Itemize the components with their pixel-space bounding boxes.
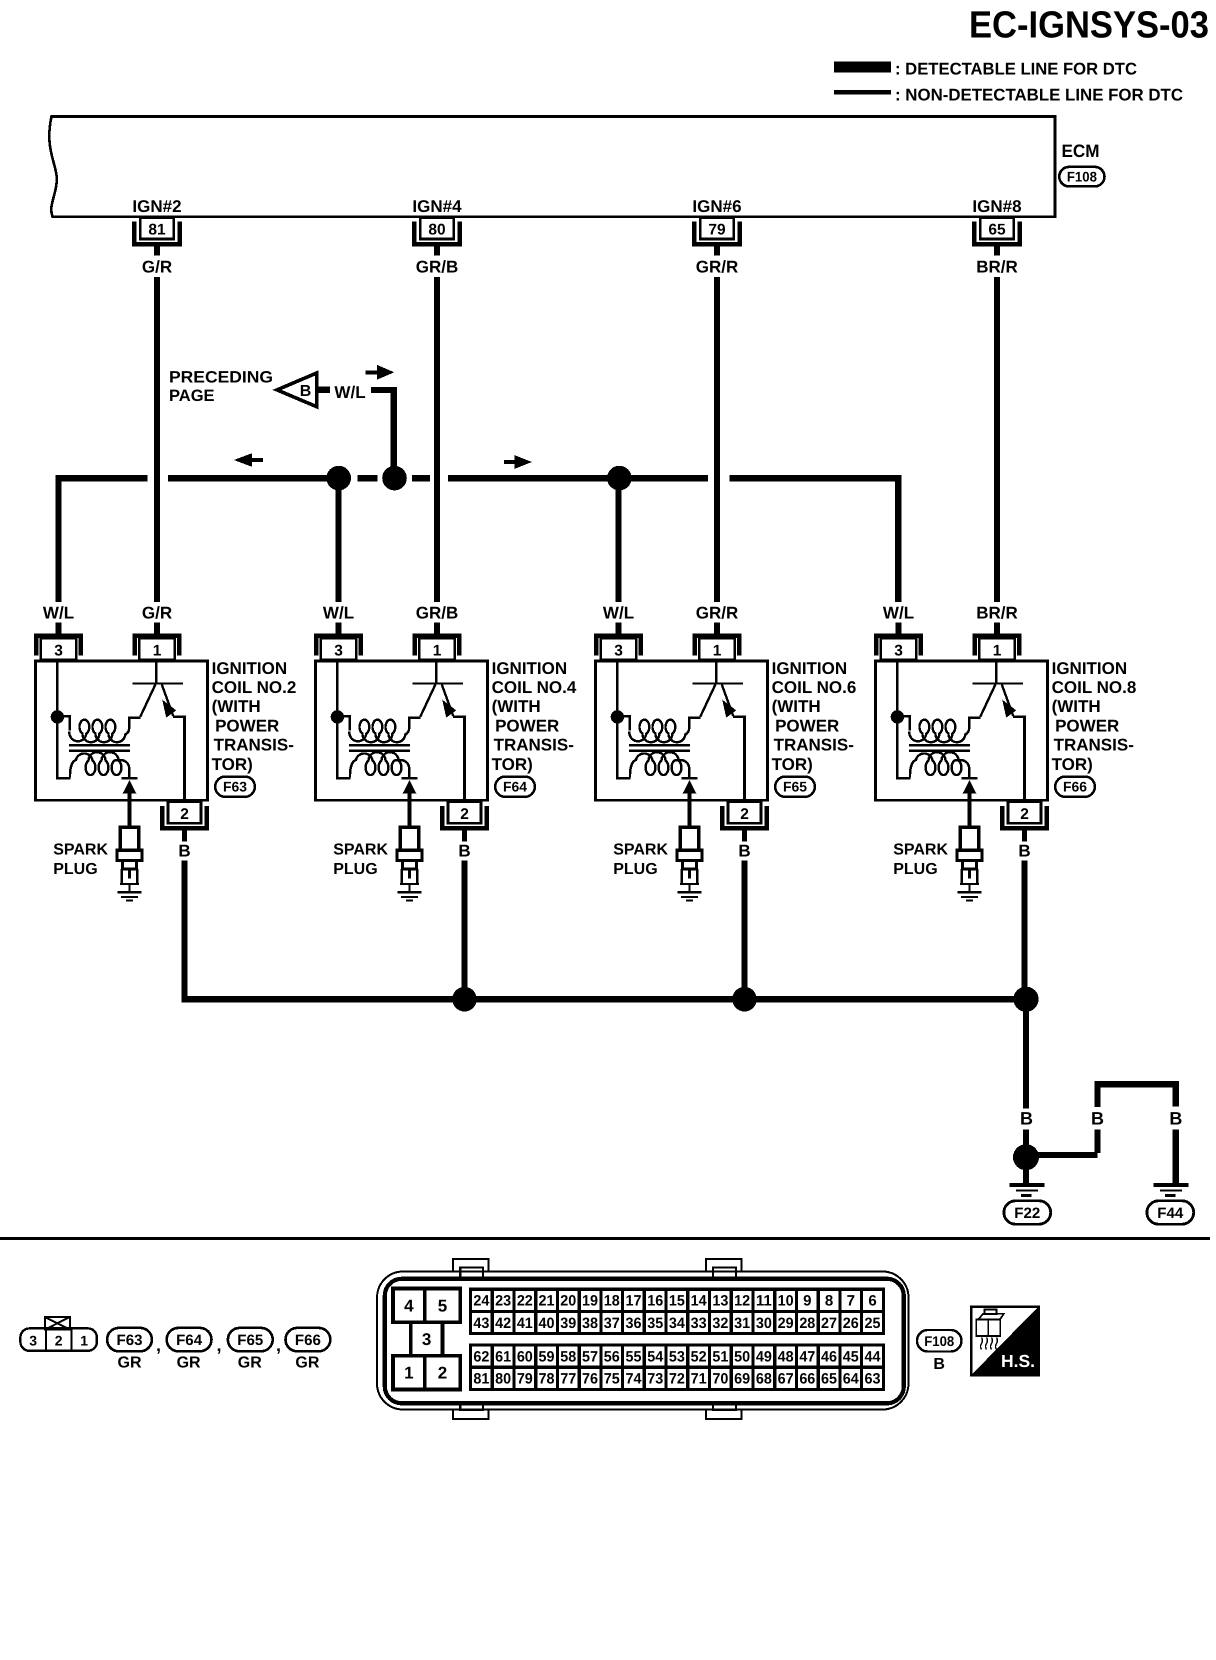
transformer T2 secondary winding: [70, 752, 129, 777]
svg-text:9: 9: [803, 1293, 811, 1310]
wire W/L feed elbow to bus: [371, 390, 394, 477]
svg-text:50: 50: [734, 1349, 750, 1366]
svg-text:GR: GR: [177, 1354, 201, 1371]
svg-text:31: 31: [734, 1315, 750, 1332]
pin cell 65: [818, 1367, 840, 1389]
svg-text:15: 15: [669, 1293, 685, 1310]
power transistor Q2 emitter with arrow: [162, 685, 173, 717]
pin cell 49: [753, 1345, 775, 1367]
svg-text:GR/R: GR/R: [696, 604, 739, 623]
wire diode to spark plug: [968, 793, 972, 828]
primary winding lead: [897, 716, 909, 730]
junction node (coil no.6 B): [732, 987, 757, 1012]
power transistor Q8 base bar: [972, 682, 1023, 684]
svg-text:F63: F63: [117, 1332, 143, 1349]
diode D4: [401, 777, 417, 780]
wire B branch right vertical: [1173, 1081, 1179, 1107]
wire B stub above ground node: [1023, 1129, 1029, 1157]
pin cell 81: [471, 1367, 493, 1389]
connector cavity 2: [425, 1356, 460, 1390]
svg-text:42: 42: [495, 1315, 511, 1332]
svg-text:GR/R: GR/R: [696, 257, 739, 276]
svg-text:48: 48: [778, 1349, 794, 1366]
connector F63 oval (bottom): [107, 1328, 152, 1351]
svg-text:,: ,: [216, 1335, 221, 1355]
pin cell 47: [796, 1345, 818, 1367]
transformer T6 primary winding: [629, 720, 685, 742]
wire stub below terminal 65: [994, 246, 1000, 256]
svg-text:11: 11: [756, 1293, 772, 1310]
pin cell 70: [710, 1367, 732, 1389]
svg-text:TRANSIS-: TRANSIS-: [1054, 736, 1134, 755]
svg-text:(WITH: (WITH: [772, 697, 821, 716]
connector F63 oval: [215, 777, 255, 797]
svg-text:IGNITION: IGNITION: [772, 659, 848, 678]
pin cell 54: [644, 1345, 666, 1367]
svg-text:POWER: POWER: [775, 716, 839, 735]
svg-text:43: 43: [473, 1315, 489, 1332]
svg-text:49: 49: [756, 1349, 772, 1366]
ground connector F44 oval: [1147, 1201, 1194, 1224]
transformer T6 core: [629, 744, 690, 747]
power transistor Q4 base wire: [435, 661, 437, 683]
svg-text:SPARK: SPARK: [53, 842, 108, 859]
svg-text:22: 22: [517, 1293, 533, 1310]
junction node (W/L to coil no.6): [607, 466, 632, 491]
svg-text:74: 74: [625, 1371, 642, 1388]
connector F66 oval (bottom): [286, 1328, 331, 1351]
svg-text:80: 80: [428, 221, 445, 238]
W/L bus segment (left end to G/R crossing): [55, 475, 147, 481]
svg-text:POWER: POWER: [1055, 716, 1119, 735]
ground connector F22 oval: [1004, 1201, 1051, 1224]
svg-text:COIL NO.4: COIL NO.4: [492, 678, 577, 697]
pin cell 12: [731, 1289, 753, 1311]
svg-text:63: 63: [865, 1371, 881, 1388]
svg-text:G/R: G/R: [142, 257, 172, 276]
wire W/L drop to coil no.6: [615, 481, 621, 602]
wire W/L drop to coil no.4: [335, 481, 341, 602]
pin cell 34: [666, 1311, 688, 1333]
coil internal junction node: [51, 710, 64, 723]
junction node (W/L from preceding page): [382, 466, 407, 491]
svg-text:SPARK: SPARK: [613, 842, 668, 859]
pin cell 39: [557, 1311, 579, 1333]
svg-text:65: 65: [821, 1371, 837, 1388]
transformer T8 primary winding: [909, 720, 965, 742]
svg-text:F66: F66: [295, 1332, 321, 1349]
svg-text:53: 53: [669, 1349, 685, 1366]
svg-text:1: 1: [80, 1332, 88, 1348]
coil pin 3 bracket: [316, 636, 360, 656]
pin cell 20: [557, 1289, 579, 1311]
svg-text:76: 76: [582, 1371, 598, 1388]
connector F66 oval: [1055, 777, 1095, 797]
connector bottom tab 2: [706, 1410, 741, 1419]
connector F108 oval (top): [1059, 167, 1104, 187]
svg-text:TRANSIS-: TRANSIS-: [494, 736, 574, 755]
pin cell 19: [579, 1289, 601, 1311]
svg-text:71: 71: [691, 1371, 707, 1388]
coil internal wire from pin 3: [336, 661, 338, 778]
power transistor Q4 base bar: [412, 682, 463, 684]
pin cell 57: [579, 1345, 601, 1367]
transformer T8 secondary winding: [910, 752, 969, 777]
coil internal junction node: [611, 710, 624, 723]
svg-text:SPARK: SPARK: [333, 842, 388, 859]
pin cell 60: [514, 1345, 536, 1367]
coil internal junction node: [891, 710, 904, 723]
pin cell 71: [688, 1367, 710, 1389]
coil pin 3 bracket: [36, 636, 80, 656]
wire stub above coil pin 3: [615, 623, 621, 634]
power transistor Q2 base wire: [155, 661, 157, 683]
svg-text:60: 60: [517, 1349, 533, 1366]
svg-text:BR/R: BR/R: [976, 604, 1018, 623]
ECM connector main outline: [385, 1279, 904, 1404]
svg-text:F63: F63: [223, 779, 247, 795]
pin cell 56: [601, 1345, 623, 1367]
svg-text:IGNITION: IGNITION: [492, 659, 568, 678]
svg-text:78: 78: [539, 1371, 555, 1388]
svg-text:70: 70: [712, 1371, 728, 1388]
svg-text:30: 30: [756, 1315, 772, 1332]
pin cell 66: [796, 1367, 818, 1389]
svg-text:14: 14: [691, 1293, 708, 1310]
svg-text:36: 36: [625, 1315, 641, 1332]
ground symbol (spark plug no.8): [958, 891, 982, 893]
primary winding lead: [57, 716, 69, 730]
svg-text:44: 44: [865, 1349, 882, 1366]
separator line: [0, 1237, 1210, 1240]
connector F64 oval (bottom): [167, 1328, 212, 1351]
svg-text:2: 2: [438, 1364, 447, 1383]
svg-text:(WITH: (WITH: [1052, 697, 1101, 716]
svg-text:18: 18: [604, 1293, 620, 1310]
svg-text:56: 56: [604, 1349, 620, 1366]
ground symbol (spark plug no.2): [118, 891, 142, 893]
svg-text:66: 66: [799, 1371, 815, 1388]
coil pin 3 bracket: [876, 636, 920, 656]
connector bottom tab 1: [453, 1410, 488, 1419]
pin cell 53: [666, 1345, 688, 1367]
coil pin 1 bracket: [975, 636, 1019, 656]
svg-text:G/R: G/R: [142, 604, 172, 623]
emitter wire to pin 2: [173, 715, 186, 718]
svg-text:67: 67: [778, 1371, 794, 1388]
svg-text:33: 33: [691, 1315, 707, 1332]
emitter wire to pin 2: [453, 715, 466, 718]
stub right of triangle: [318, 387, 330, 393]
svg-text:B: B: [1091, 1109, 1104, 1129]
primary right lead to transistor: [685, 718, 700, 735]
wire W/L drop to coil no.8 (bus right end): [895, 475, 901, 602]
svg-text:SPARK: SPARK: [893, 842, 948, 859]
pin cell 33: [688, 1311, 710, 1333]
W/L bus segment (GR/B crossing to GR/R crossing): [448, 475, 708, 481]
pin cell 52: [688, 1345, 710, 1367]
power transistor Q8 emitter with arrow: [1002, 685, 1013, 717]
svg-text:F108: F108: [1067, 169, 1097, 185]
diode D6: [681, 777, 697, 780]
coil internal wire from pin 3: [896, 661, 898, 778]
svg-text:1: 1: [713, 642, 722, 659]
coil pin 1 box: [979, 638, 1014, 660]
pin cell 62: [471, 1345, 493, 1367]
svg-text:ECM: ECM: [1062, 141, 1100, 161]
coil pin 2 box: [448, 802, 481, 824]
transformer T6 secondary winding: [630, 752, 689, 777]
svg-text:1: 1: [153, 642, 162, 659]
ECM terminal 81 bracket: [134, 222, 179, 244]
pin cell 8: [818, 1289, 840, 1311]
coil pin 1 bracket: [135, 636, 179, 656]
junction node (W/L to coil no.2): [326, 466, 351, 491]
svg-text:POWER: POWER: [495, 716, 559, 735]
pin cell 9: [796, 1289, 818, 1311]
ground symbol F22: [1009, 1183, 1044, 1187]
wire stub above coil pin 1 (G/R): [154, 623, 160, 634]
primary winding lead: [617, 716, 629, 730]
svg-text:,: ,: [156, 1335, 161, 1355]
pin cell 17: [623, 1289, 645, 1311]
svg-text:1: 1: [433, 642, 442, 659]
svg-text:W/L: W/L: [323, 604, 354, 623]
pin cell 68: [753, 1367, 775, 1389]
svg-text:GR: GR: [118, 1354, 142, 1371]
emitter wire to pin 2: [733, 715, 746, 718]
W/L bus dash segment 2: [412, 475, 430, 481]
primary winding lead: [337, 716, 349, 730]
svg-text:3: 3: [29, 1332, 37, 1348]
svg-text:W/L: W/L: [603, 604, 634, 623]
ignition coil no.4 box: [316, 661, 488, 800]
wire diode to spark plug: [688, 793, 692, 828]
svg-text:W/L: W/L: [334, 383, 365, 402]
svg-text:F65: F65: [237, 1332, 263, 1349]
H.S. data link connector icon: [971, 1307, 1038, 1376]
svg-text:39: 39: [560, 1315, 576, 1332]
ECM terminal 80 box: [420, 218, 454, 239]
pin cell 41: [514, 1311, 536, 1333]
ECM terminal 80 bracket: [414, 222, 459, 244]
pin cell 26: [840, 1311, 862, 1333]
coil internal wire from pin 3: [56, 661, 58, 778]
svg-text:73: 73: [647, 1371, 663, 1388]
ECM U1 box: [49, 117, 1055, 217]
coil pin 2 bracket: [722, 806, 767, 828]
primary right lead to transistor: [965, 718, 980, 735]
ECM terminal 65 bracket: [974, 222, 1019, 244]
svg-text:13: 13: [712, 1293, 728, 1310]
pin cell 21: [536, 1289, 558, 1311]
svg-text:27: 27: [821, 1315, 837, 1332]
svg-text:3: 3: [614, 642, 623, 659]
connector top tab 1: [453, 1259, 488, 1272]
svg-text:80: 80: [495, 1371, 511, 1388]
svg-text:45: 45: [843, 1349, 859, 1366]
svg-text:IGN#6: IGN#6: [692, 197, 741, 216]
svg-text:TRANSIS-: TRANSIS-: [214, 736, 294, 755]
ground junction node: [1013, 1144, 1039, 1170]
coil pin 3 bracket: [596, 636, 640, 656]
arrow left on bus: [234, 453, 252, 467]
svg-text:81: 81: [148, 221, 166, 238]
svg-text:TOR): TOR): [212, 755, 253, 774]
coil pin 3 box: [41, 638, 76, 660]
svg-text:B: B: [1169, 1109, 1182, 1129]
svg-text:B: B: [458, 842, 470, 861]
svg-text:75: 75: [604, 1371, 620, 1388]
svg-text:PLUG: PLUG: [893, 861, 937, 878]
svg-text:(WITH: (WITH: [492, 697, 541, 716]
svg-text:28: 28: [799, 1315, 815, 1332]
arrow right on bus: [504, 460, 517, 464]
svg-text:F65: F65: [783, 779, 807, 795]
connector cavity 4: [393, 1289, 425, 1323]
wire stub above coil pin 3: [895, 623, 901, 634]
transformer T4 core: [349, 744, 410, 747]
svg-text:54: 54: [647, 1349, 664, 1366]
W/L bus segment (GR/R crossing to right end): [730, 475, 902, 481]
pin cell 61: [492, 1345, 514, 1367]
svg-text:B: B: [300, 383, 312, 400]
connector top tab 2: [706, 1259, 741, 1272]
svg-text:38: 38: [582, 1315, 598, 1332]
pin cell 23: [492, 1289, 514, 1311]
svg-text:,: ,: [276, 1335, 281, 1355]
ECM connector outer outline: [377, 1272, 909, 1410]
svg-text:B: B: [178, 842, 190, 861]
svg-text:79: 79: [708, 221, 726, 238]
transformer T4 primary winding: [349, 720, 405, 742]
coil pin 1 bracket: [695, 636, 739, 656]
pin cell 67: [775, 1367, 797, 1389]
pin cell 44: [862, 1345, 884, 1367]
svg-text:COIL NO.8: COIL NO.8: [1052, 678, 1137, 697]
ECM terminal 79 bracket: [694, 222, 739, 244]
wire GR/R vertical from ECM pin 79: [714, 277, 720, 602]
pin cell 43: [471, 1311, 493, 1333]
coil pin 1 box: [419, 638, 454, 660]
svg-text:TOR): TOR): [492, 755, 533, 774]
svg-text:: NON-DETECTABLE LINE FOR DTC: : NON-DETECTABLE LINE FOR DTC: [895, 85, 1183, 104]
power transistor Q4 collector: [420, 685, 435, 717]
diode D8: [961, 777, 977, 780]
connector F64 oval: [495, 777, 535, 797]
svg-text:B: B: [1020, 1109, 1033, 1129]
connector cavity 5: [425, 1289, 460, 1323]
svg-text:H.S.: H.S.: [1001, 1351, 1035, 1371]
coil pin 2 bracket: [1002, 806, 1047, 828]
wire diode to spark plug: [128, 793, 132, 828]
svg-text:B: B: [738, 842, 750, 861]
coil internal junction node: [331, 710, 344, 723]
svg-text:8: 8: [825, 1293, 833, 1310]
pin cell 6: [862, 1289, 884, 1311]
coil connector face (3-2-1): [20, 1328, 97, 1350]
svg-text:34: 34: [669, 1315, 686, 1332]
svg-text:35: 35: [647, 1315, 663, 1332]
coil pin 3 box: [601, 638, 636, 660]
transformer T8 core: [909, 744, 970, 747]
coil pin 3 box: [321, 638, 356, 660]
wire W/L drop to coil no.2 (bus left end): [55, 475, 61, 602]
power transistor Q6 collector: [700, 685, 715, 717]
svg-text:B: B: [933, 1356, 945, 1373]
ECM terminal 81 box: [140, 218, 174, 239]
power transistor Q2 collector: [140, 685, 155, 717]
ECM terminal 79 box: [700, 218, 734, 239]
wire B branch left vertical: [1094, 1085, 1100, 1107]
svg-text:21: 21: [539, 1293, 555, 1310]
svg-text:2: 2: [1020, 806, 1029, 823]
svg-text:7: 7: [847, 1293, 855, 1310]
svg-text:(WITH: (WITH: [212, 697, 261, 716]
pin cell 76: [579, 1367, 601, 1389]
pin cell 72: [666, 1367, 688, 1389]
legend non-detectable line symbol: [834, 90, 891, 95]
svg-text:GR: GR: [295, 1354, 319, 1371]
svg-text:PLUG: PLUG: [333, 861, 377, 878]
svg-text:2: 2: [180, 806, 189, 823]
wire B branch top bar: [1094, 1081, 1179, 1087]
connector cavity 3: [411, 1322, 443, 1356]
coil pin 1 box: [699, 638, 734, 660]
pin cell 10: [775, 1289, 797, 1311]
pin cell 14: [688, 1289, 710, 1311]
svg-text:1: 1: [993, 642, 1002, 659]
svg-text:19: 19: [582, 1293, 598, 1310]
svg-text:TOR): TOR): [1052, 755, 1093, 774]
svg-text:TOR): TOR): [772, 755, 813, 774]
wire B from pin 2 down: [181, 861, 187, 998]
wire stub above coil pin 3: [335, 623, 341, 634]
pin cell 35: [644, 1311, 666, 1333]
svg-text:24: 24: [473, 1293, 490, 1310]
power transistor Q6 base wire: [715, 661, 717, 683]
pin cell 50: [731, 1345, 753, 1367]
pin cell 18: [601, 1289, 623, 1311]
svg-text:POWER: POWER: [215, 716, 279, 735]
ignition coil no.2 box: [36, 661, 208, 800]
pin cell 58: [557, 1345, 579, 1367]
svg-text:F64: F64: [176, 1332, 203, 1349]
power transistor Q6 emitter with arrow: [722, 685, 733, 717]
wire stub above coil pin 3: [55, 623, 61, 634]
junction node (coil no.8 B, corner): [1013, 987, 1038, 1012]
legend detectable line symbol: [834, 62, 891, 73]
svg-text:3: 3: [422, 1330, 431, 1349]
coil internal wire from pin 3: [616, 661, 618, 778]
svg-text:F66: F66: [1063, 779, 1087, 795]
pin cell 37: [601, 1311, 623, 1333]
svg-text:IGN#2: IGN#2: [132, 197, 181, 216]
svg-text:IGN#8: IGN#8: [972, 197, 1021, 216]
svg-text:2: 2: [460, 806, 469, 823]
wire stub below terminal 81: [154, 246, 160, 256]
wire stub above coil pin 1 (GR/R): [714, 623, 720, 634]
svg-text:62: 62: [473, 1349, 489, 1366]
pin cell 69: [731, 1367, 753, 1389]
wire B from pin 2 down: [1021, 861, 1027, 1001]
svg-text:2: 2: [740, 806, 749, 823]
wire B from pin 2 down: [461, 861, 467, 1001]
wire stub below pin 2: [742, 830, 747, 841]
svg-text:68: 68: [756, 1371, 772, 1388]
svg-text:2: 2: [55, 1332, 63, 1348]
W/L bus segment (G/R crossing to junction): [168, 475, 339, 481]
